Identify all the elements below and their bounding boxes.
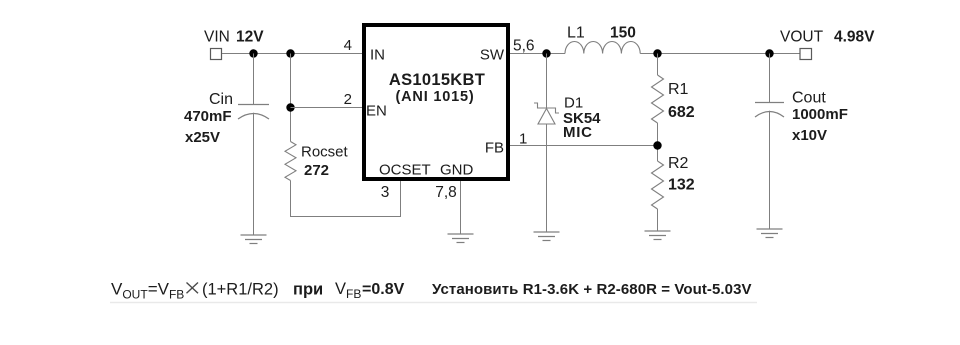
capacitor Cin (238, 105, 269, 120)
ground below D1 (534, 232, 560, 241)
terminal VIN (211, 49, 222, 60)
svg-text:=0.8V: =0.8V (362, 281, 405, 298)
op-amp U1 AS1015KBT body (364, 25, 508, 179)
wire VIN rail to IC IN pin (222, 53, 362, 55)
wire GND pin lead (460, 181, 462, 234)
wire diode lower lead (546, 124, 548, 232)
svg-text:5,6: 5,6 (513, 38, 535, 55)
node EN/Rocset tap on rail (286, 49, 294, 57)
svg-text:3: 3 (381, 184, 390, 201)
wire R2 lower lead (657, 209, 659, 231)
svg-text:x25V: x25V (185, 129, 220, 146)
svg-text:при: при (293, 281, 323, 299)
ground below IC GND pin (448, 234, 474, 243)
svg-text:GND: GND (440, 162, 474, 179)
svg-text:(ANI 1015): (ANI 1015) (396, 89, 475, 105)
resistor R1 (652, 75, 664, 123)
wire EN branch vertical upper (290, 54, 292, 142)
node R1 tap (653, 49, 661, 57)
wire inductor to VOUT (640, 53, 800, 55)
svg-text:4.98V: 4.98V (834, 29, 875, 46)
svg-text:VOUT=VFB: VOUT=VFB (111, 280, 184, 302)
svg-text:1000mF: 1000mF (792, 106, 848, 123)
resistor R2 (652, 161, 664, 209)
svg-text:OCSET: OCSET (379, 162, 431, 179)
inductor L1 (565, 41, 640, 53)
formula Vout=Vfb(1+R1/R2) (111, 280, 279, 302)
svg-text:R1: R1 (668, 81, 689, 98)
wire R1 upper lead (657, 54, 659, 76)
svg-text:IN: IN (370, 47, 385, 64)
wire Cin upper lead (253, 54, 255, 105)
wire SW to inductor (510, 53, 565, 55)
svg-text:L1: L1 (567, 25, 585, 42)
wire R1 to node (657, 123, 659, 161)
svg-text:12V: 12V (236, 29, 264, 46)
svg-text:R2: R2 (668, 155, 689, 172)
svg-text:FB: FB (485, 140, 504, 157)
svg-text:(1+R1/R2): (1+R1/R2) (202, 281, 279, 299)
node Cout tap (765, 49, 773, 57)
svg-text:682: 682 (668, 104, 695, 121)
ground below Cout (757, 229, 783, 238)
svg-text:AS1015KBT: AS1015KBT (389, 71, 485, 89)
wire diode upper lead (546, 54, 548, 109)
resistor Rocset (285, 142, 296, 181)
svg-text:4: 4 (344, 37, 352, 54)
terminal VOUT (800, 49, 812, 60)
svg-text:x10V: x10V (792, 127, 827, 144)
node EN tap (286, 103, 294, 111)
svg-text:EN: EN (366, 103, 387, 120)
wire FB to divider (510, 145, 658, 147)
svg-text:VFB: VFB (335, 280, 361, 301)
svg-text:470mF: 470mF (184, 108, 232, 125)
wire Cin lower lead (253, 113, 255, 235)
underline artifact (110, 302, 757, 304)
wire Cout upper lead (769, 54, 771, 103)
node Cin tap (249, 49, 257, 57)
ground below R2 (645, 231, 671, 240)
node FB divider junction (653, 141, 661, 149)
svg-text:SW: SW (480, 47, 505, 64)
wire Cout lower lead (769, 111, 771, 229)
svg-text:Cin: Cin (209, 91, 233, 108)
svg-text:Cout: Cout (792, 90, 826, 107)
svg-text:2: 2 (344, 91, 352, 108)
svg-text:132: 132 (668, 177, 695, 194)
svg-text:VIN: VIN (204, 29, 230, 46)
diode D1 zener (534, 103, 559, 124)
wire EN to IC (291, 107, 363, 109)
svg-text:1: 1 (519, 131, 527, 148)
svg-text:MIC: MIC (563, 124, 593, 141)
capacitor Cout (755, 103, 784, 118)
wire Rocset bottom to OCSET pin (291, 181, 401, 217)
svg-text:7,8: 7,8 (435, 184, 457, 201)
node diode tap (542, 49, 550, 57)
svg-text:150: 150 (610, 25, 636, 42)
svg-text:Rocset: Rocset (301, 144, 349, 161)
svg-text:Установить R1-3.6K + R2-680R =: Установить R1-3.6K + R2-680R = Vout-5.03… (432, 281, 752, 298)
svg-text:272: 272 (304, 162, 329, 179)
svg-text:D1: D1 (564, 95, 583, 112)
svg-text:VOUT: VOUT (780, 29, 824, 46)
ground below Cin (241, 235, 267, 244)
